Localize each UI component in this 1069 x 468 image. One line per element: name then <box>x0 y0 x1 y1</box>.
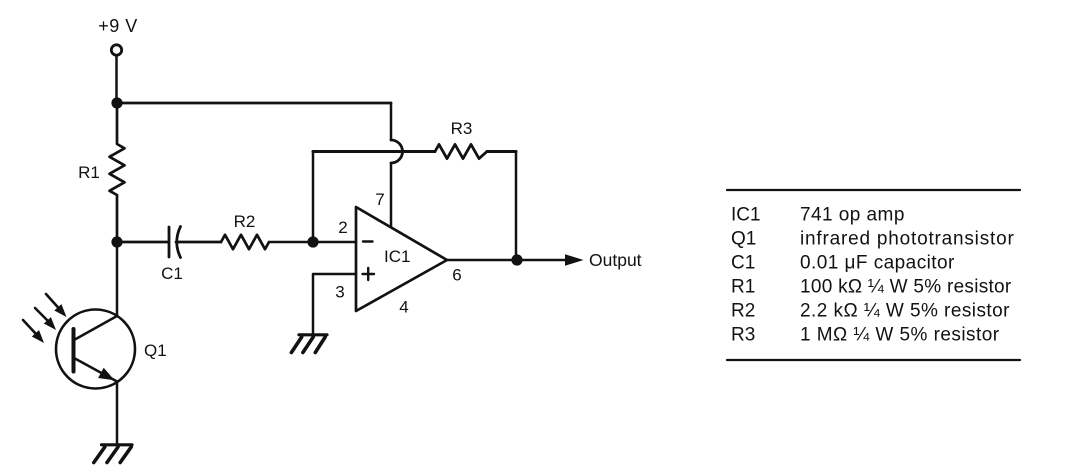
ground at pin 3: tine 3 <box>315 337 325 353</box>
svg-text:3: 3 <box>335 283 344 302</box>
wire: feedback top run <box>313 150 435 153</box>
ground at pin 3: bar <box>299 333 327 336</box>
ground at Q1: tine 2 <box>107 447 118 463</box>
capacitor C1 right plate (curved) <box>177 227 181 258</box>
svg-text:R1: R1 <box>78 163 100 182</box>
op-amp plus sign <box>363 268 375 280</box>
transistor Q1 base bar <box>72 329 76 372</box>
resistor R3 <box>435 144 487 158</box>
wire: pin 7 drop upper segment <box>390 103 393 140</box>
wire: op-amp output pin 6 <box>447 259 567 262</box>
svg-text:1 MΩ ¼ W 5% resistor: 1 MΩ ¼ W 5% resistor <box>800 325 1000 346</box>
ground at Q1: tine 3 <box>120 447 131 463</box>
transistor Q1 emitter arrowhead <box>98 368 114 381</box>
svg-text:R1: R1 <box>731 277 755 298</box>
resistor R1 <box>110 103 125 242</box>
wire: R2 to op-amp inverting input through node C <box>269 241 356 244</box>
svg-text:R3: R3 <box>731 325 755 346</box>
svg-text:IC1: IC1 <box>384 247 410 266</box>
svg-text:IC1: IC1 <box>731 205 761 226</box>
wire hop over feedback wire <box>391 140 403 163</box>
node A junction dot <box>111 97 122 108</box>
svg-text:R3: R3 <box>451 119 473 138</box>
svg-text:+9 V: +9 V <box>98 16 138 36</box>
transistor Q1 collector line <box>74 316 117 340</box>
capacitor C1 left plate <box>168 227 171 257</box>
light arrow 2 shaft <box>35 308 49 322</box>
svg-text:100 kΩ ¼ W 5% resistor: 100 kΩ ¼ W 5% resistor <box>800 277 1012 298</box>
wire: R3 to right corner <box>487 150 516 153</box>
wire: node B down to Q1 collector <box>116 242 119 316</box>
op-amp minus sign <box>363 240 373 242</box>
wire: terminal to node A <box>115 56 118 104</box>
node B junction dot <box>111 236 122 247</box>
light arrow 1 shaft <box>46 294 59 309</box>
ground at pin 3: tine 2 <box>303 337 313 353</box>
wire: C1 to R2 <box>176 241 221 244</box>
node D junction dot (output) <box>511 254 522 265</box>
transistor Q1 emitter line <box>74 358 117 382</box>
parts list top rule <box>727 189 1020 191</box>
wire: right drop to output node <box>515 152 518 261</box>
svg-text:C1: C1 <box>731 253 755 274</box>
svg-text:7: 7 <box>375 190 384 209</box>
ground at Q1: tine 1 <box>94 447 105 463</box>
light arrow 3 shaft <box>23 320 37 335</box>
svg-text:R2: R2 <box>731 301 755 322</box>
svg-text:0.01 μF capacitor: 0.01 μF capacitor <box>800 253 955 274</box>
transistor Q1 envelope circle <box>56 310 135 389</box>
svg-text:2: 2 <box>338 218 347 237</box>
ground at Q1: bar <box>102 443 133 446</box>
node C junction dot <box>307 236 318 247</box>
svg-text:Q1: Q1 <box>731 229 756 250</box>
wire: node B to C1 left plate <box>117 241 169 244</box>
svg-text:Output: Output <box>589 250 642 270</box>
light arrow 2 head <box>44 317 56 330</box>
light arrow 1 head <box>54 304 66 317</box>
svg-text:R2: R2 <box>234 212 256 231</box>
parts list bottom rule <box>727 359 1020 361</box>
svg-text:infrared phototransistor: infrared phototransistor <box>800 229 1015 250</box>
wire: feedback riser from node C <box>312 152 315 243</box>
svg-text:741 op amp: 741 op amp <box>800 205 905 226</box>
wire: pin 3 to ground <box>313 274 356 333</box>
svg-text:4: 4 <box>399 298 408 317</box>
wire: pin 7 drop lower segment to op-amp top edge <box>390 163 393 227</box>
ground at pin 3: tine 1 <box>291 337 301 353</box>
op-amp U1 triangle <box>356 207 447 311</box>
light arrow 3 head <box>32 330 44 343</box>
svg-text:2.2 kΩ ¼ W 5% resistor: 2.2 kΩ ¼ W 5% resistor <box>800 301 1010 322</box>
wire: Q1 emitter to ground <box>116 382 119 444</box>
resistor R2 <box>221 235 269 249</box>
+9 V terminal (open circle) <box>111 45 121 55</box>
svg-text:6: 6 <box>452 266 461 285</box>
svg-text:C1: C1 <box>161 264 183 283</box>
wire: supply rail from node A to pin 7 drop <box>117 102 391 105</box>
svg-text:Q1: Q1 <box>144 341 167 360</box>
output arrowhead <box>565 254 584 265</box>
